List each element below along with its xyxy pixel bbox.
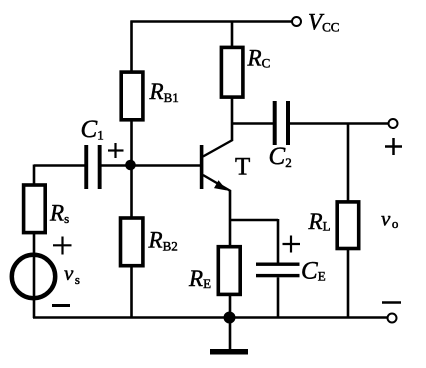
plus sign at CE <box>283 236 301 253</box>
plus sign at C1 <box>108 143 124 158</box>
resistor RB1 <box>121 72 143 120</box>
resistor RS <box>24 185 46 233</box>
svg-text:RC: RC <box>247 46 271 71</box>
resistor RL <box>337 202 359 249</box>
svg-text:RE: RE <box>188 266 211 291</box>
wire CE bottom <box>277 277 280 318</box>
transistor T collector diagonal <box>203 140 233 157</box>
minus sign at vs <box>52 304 70 307</box>
wire RC top <box>231 22 234 48</box>
wire RL bottom <box>347 250 350 318</box>
transistor T base bar <box>200 145 204 189</box>
wire collector vertical <box>231 96 234 141</box>
svg-text:T: T <box>235 154 250 181</box>
terminal output top circle <box>389 119 398 128</box>
terminal output bottom circle <box>388 314 397 323</box>
node base junction dot <box>125 160 136 171</box>
ground bar <box>210 349 248 355</box>
plus sign at vs <box>53 237 72 255</box>
source vs circle <box>12 255 55 298</box>
resistor RC <box>221 47 243 97</box>
wire RB1 top <box>130 21 133 73</box>
capacitor C1 plate left <box>84 145 88 189</box>
svg-text:vs: vs <box>64 261 80 287</box>
wire RB2 top <box>130 166 133 218</box>
svg-text:VCC: VCC <box>308 10 339 35</box>
capacitor CE plate top <box>256 263 300 266</box>
wire left column bottom through source <box>33 234 36 319</box>
wire input left horizontal <box>34 164 85 167</box>
wire emitter vertical <box>229 190 232 246</box>
plus sign at output <box>385 138 402 155</box>
svg-text:vo: vo <box>381 207 398 232</box>
wire C1 to base node <box>102 164 132 167</box>
capacitor CE plate bottom <box>256 274 300 277</box>
svg-text:RB2: RB2 <box>148 228 178 254</box>
terminal VCC circle <box>292 17 301 26</box>
wire RB1 bottom <box>130 120 133 167</box>
wire RB2 bottom <box>130 267 133 319</box>
resistor RE <box>218 247 240 295</box>
wire emitter to CE <box>229 219 278 222</box>
svg-text:RB1: RB1 <box>149 79 179 105</box>
capacitor C1 plate right <box>98 145 102 189</box>
transistor T emitter arrow <box>214 180 227 190</box>
svg-text:RL: RL <box>308 209 331 234</box>
minus sign at output <box>382 301 401 304</box>
svg-text:C1: C1 <box>81 116 104 143</box>
wire RE bottom <box>229 295 232 318</box>
wire ground stub <box>229 318 232 350</box>
capacitor C2 plate left <box>273 101 277 145</box>
transistor T emitter diagonal <box>203 175 231 191</box>
wire left column top <box>33 165 36 185</box>
svg-text:C2: C2 <box>269 143 292 170</box>
wire base <box>132 164 201 167</box>
wire top rail <box>131 20 293 23</box>
svg-text:Rs: Rs <box>49 201 69 227</box>
wire collector to C2 <box>232 122 273 125</box>
capacitor C2 plate right <box>286 101 290 145</box>
resistor RB2 <box>121 218 143 266</box>
wire C2 to output terminal <box>290 122 389 125</box>
wire bottom rail <box>33 316 388 319</box>
wire RL top <box>347 124 350 202</box>
wire CE top <box>277 219 280 263</box>
svg-text:CE: CE <box>301 258 326 285</box>
node emitter-ground junction dot <box>224 312 236 324</box>
